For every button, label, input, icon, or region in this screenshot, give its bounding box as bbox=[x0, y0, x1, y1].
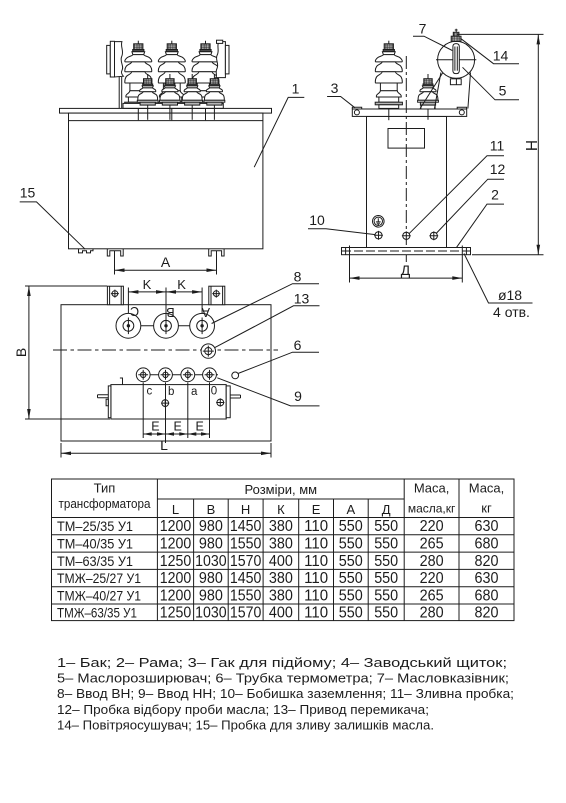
TABLE bbox=[52, 479, 515, 622]
svg-text:К: К bbox=[277, 502, 285, 517]
sampling plug 12 bbox=[429, 231, 438, 240]
LV bushing c top bbox=[136, 368, 150, 382]
lifting bracket right bbox=[209, 286, 225, 305]
TOP VIEW bbox=[13, 268, 320, 457]
svg-text:Маса,: Маса, bbox=[469, 481, 505, 496]
callout labels bbox=[309, 21, 508, 228]
svg-text:15: 15 bbox=[20, 184, 36, 200]
svg-text:5– Маслорозширювач; 6– Труб: 5– Маслорозширювач; 6– Трубка термометра… bbox=[57, 671, 509, 686]
svg-text:1570: 1570 bbox=[230, 605, 262, 622]
svg-text:1030: 1030 bbox=[195, 553, 227, 570]
svg-text:820: 820 bbox=[475, 553, 499, 570]
right terminal plate bbox=[215, 40, 229, 103]
svg-text:1030: 1030 bbox=[195, 605, 227, 622]
SIDE VIEW bbox=[308, 21, 544, 320]
drain plug 15 front bbox=[79, 249, 94, 253]
hole callout o18 bbox=[464, 254, 533, 320]
svg-text:12– Пробка відбору проби масл: 12– Пробка відбору проби масла; 13– Прив… bbox=[57, 702, 429, 717]
svg-text:550: 550 bbox=[374, 587, 398, 604]
svg-text:110: 110 bbox=[304, 553, 328, 570]
LV row line bbox=[136, 374, 218, 376]
svg-text:10: 10 bbox=[309, 212, 325, 228]
svg-text:H: H bbox=[524, 140, 541, 151]
svg-text:550: 550 bbox=[339, 570, 363, 587]
svg-text:680: 680 bbox=[475, 536, 499, 553]
svg-text:Розміри, мм: Розміри, мм bbox=[245, 482, 318, 497]
dimension E E E bbox=[143, 383, 209, 444]
center line horizontal bbox=[53, 349, 278, 351]
svg-text:0: 0 bbox=[211, 386, 217, 398]
svg-text:1250: 1250 bbox=[160, 553, 192, 570]
table row 4 bbox=[57, 570, 499, 587]
svg-text:265: 265 bbox=[420, 536, 444, 553]
left terminal plate bbox=[107, 41, 124, 108]
LV bushing front b3 bbox=[182, 74, 203, 120]
svg-text:110: 110 bbox=[304, 587, 328, 604]
callout 6 leader bbox=[238, 337, 319, 374]
svg-text:550: 550 bbox=[374, 518, 398, 535]
svg-text:380: 380 bbox=[269, 518, 293, 535]
tank 1 side body bbox=[367, 116, 447, 247]
svg-text:K: K bbox=[143, 277, 152, 292]
svg-text:1200: 1200 bbox=[160, 518, 192, 535]
bushing mounting plate bbox=[123, 103, 223, 108]
HV bushing front B1 bbox=[125, 41, 152, 121]
svg-text:масла,кг: масла,кг bbox=[408, 502, 456, 516]
svg-text:В: В bbox=[207, 502, 216, 517]
svg-text:110: 110 bbox=[304, 605, 328, 622]
table grid bbox=[52, 479, 515, 621]
phase labels bbox=[147, 386, 218, 399]
svg-text:E: E bbox=[174, 420, 182, 434]
svg-text:трансформатора: трансформатора bbox=[59, 496, 152, 511]
svg-text:ТМЖ–40/27 У1: ТМЖ–40/27 У1 bbox=[57, 587, 141, 603]
table row 3 bbox=[57, 553, 499, 570]
LV bushing side bbox=[418, 74, 439, 120]
svg-text:ТМ–63/35 У1: ТМ–63/35 У1 bbox=[57, 553, 133, 569]
air dryer 14 bbox=[451, 29, 461, 42]
svg-text:13: 13 bbox=[294, 290, 310, 306]
svg-text:ТМ–40/35 У1: ТМ–40/35 У1 bbox=[57, 536, 133, 552]
svg-text:380: 380 bbox=[269, 587, 293, 604]
callout 8 leader bbox=[212, 268, 319, 323]
nameplate 4 bbox=[388, 129, 425, 149]
svg-text:B: B bbox=[166, 305, 174, 319]
svg-text:110: 110 bbox=[304, 536, 328, 553]
svg-text:6: 6 bbox=[294, 337, 302, 353]
svg-text:980: 980 bbox=[199, 518, 223, 535]
lifting bracket left bbox=[107, 286, 123, 305]
svg-text:11: 11 bbox=[490, 138, 505, 154]
tank 1 front view body bbox=[69, 113, 263, 249]
svg-text:Тип: Тип bbox=[94, 481, 116, 496]
svg-text:E: E bbox=[196, 420, 204, 434]
svg-text:ТМ–25/35 У1: ТМ–25/35 У1 bbox=[57, 518, 133, 534]
dimension D bbox=[350, 246, 463, 283]
callout 11 leader bbox=[409, 156, 504, 234]
svg-text:550: 550 bbox=[339, 536, 363, 553]
FRONT VIEW bbox=[20, 40, 305, 274]
svg-text:550: 550 bbox=[339, 518, 363, 535]
callout 13 leader bbox=[215, 290, 320, 347]
tap changer drive 13 bbox=[201, 344, 215, 358]
base frame 2 bbox=[342, 248, 471, 255]
table row 6 bbox=[57, 605, 499, 622]
svg-text:550: 550 bbox=[339, 605, 363, 622]
svg-text:380: 380 bbox=[269, 570, 293, 587]
callout 10 leader bbox=[308, 229, 375, 235]
svg-text:980: 980 bbox=[199, 536, 223, 553]
table row 2 bbox=[57, 536, 499, 553]
center line vertical bbox=[405, 56, 407, 262]
table header text bbox=[59, 481, 505, 517]
HV bushing C top view bbox=[116, 304, 141, 338]
svg-text:1200: 1200 bbox=[160, 587, 192, 604]
housing plugs bbox=[161, 399, 169, 407]
LV bushing front b2 bbox=[160, 74, 181, 120]
svg-text:280: 280 bbox=[420, 553, 444, 570]
dimension A bbox=[115, 251, 217, 275]
svg-text:L: L bbox=[172, 502, 179, 517]
svg-text:Маса,: Маса, bbox=[414, 481, 450, 496]
callout 2 leader bbox=[457, 204, 505, 247]
svg-text:380: 380 bbox=[269, 536, 293, 553]
svg-text:550: 550 bbox=[339, 587, 363, 604]
svg-text:А: А bbox=[346, 502, 355, 517]
svg-text:400: 400 bbox=[269, 605, 293, 622]
svg-text:980: 980 bbox=[199, 570, 223, 587]
svg-text:630: 630 bbox=[475, 518, 499, 535]
svg-text:Д: Д bbox=[382, 502, 391, 517]
LEGEND bbox=[57, 655, 514, 732]
svg-text:820: 820 bbox=[475, 605, 499, 622]
svg-text:c: c bbox=[147, 386, 153, 398]
tank outline top view bbox=[61, 305, 271, 441]
svg-text:550: 550 bbox=[339, 553, 363, 570]
svg-text:14: 14 bbox=[493, 47, 509, 63]
svg-text:2: 2 bbox=[491, 186, 499, 202]
svg-text:ø18: ø18 bbox=[498, 287, 522, 303]
svg-text:B: B bbox=[13, 348, 29, 357]
svg-text:1– Бак; 2– Рама; 3– Гак д: 1– Бак; 2– Рама; 3– Гак для підйому; 4– … bbox=[57, 655, 507, 670]
svg-text:400: 400 bbox=[269, 553, 293, 570]
HV bushing A top view bbox=[190, 305, 215, 338]
svg-text:кг: кг bbox=[481, 501, 492, 516]
dimension B bbox=[13, 286, 110, 419]
svg-text:9: 9 bbox=[294, 388, 302, 404]
svg-text:550: 550 bbox=[374, 553, 398, 570]
oil level gauge 7 bbox=[453, 44, 459, 74]
HV bushing B top view bbox=[154, 305, 179, 338]
svg-text:280: 280 bbox=[420, 605, 444, 622]
svg-text:Н: Н bbox=[241, 502, 250, 517]
dimension L bbox=[61, 437, 271, 458]
svg-text:220: 220 bbox=[420, 518, 444, 535]
drain plug 11 bbox=[402, 231, 411, 240]
LV bushing 0 top bbox=[203, 368, 217, 382]
table row 1 bbox=[57, 518, 499, 535]
svg-text:1450: 1450 bbox=[230, 570, 262, 587]
svg-text:12: 12 bbox=[490, 161, 506, 177]
svg-text:C: C bbox=[130, 304, 139, 318]
conservator support legs bbox=[435, 73, 471, 109]
HV bushing side bbox=[375, 41, 402, 121]
HV bushings row line bbox=[116, 325, 214, 327]
svg-text:ТМЖ–63/35 У1: ТМЖ–63/35 У1 bbox=[57, 605, 137, 621]
thermometer tube 6 bbox=[232, 372, 239, 379]
foot left bbox=[107, 249, 123, 256]
callout 7 leader bbox=[413, 36, 452, 50]
dimension K K bbox=[128, 277, 202, 320]
svg-text:Д: Д bbox=[401, 262, 411, 278]
svg-text:1450: 1450 bbox=[230, 518, 262, 535]
svg-text:E: E bbox=[151, 420, 159, 434]
lid side with hooks 3 bbox=[352, 107, 466, 116]
svg-text:1200: 1200 bbox=[160, 570, 192, 587]
svg-text:8– Ввод ВН; 9– Ввод НН; 10: 8– Ввод ВН; 9– Ввод НН; 10– Бобишка зазе… bbox=[57, 686, 514, 701]
svg-text:L: L bbox=[160, 437, 168, 453]
svg-text:A: A bbox=[161, 254, 171, 270]
svg-text:265: 265 bbox=[420, 587, 444, 604]
dimension H bbox=[457, 34, 544, 254]
svg-text:ТМЖ–25/27 У1: ТМЖ–25/27 У1 bbox=[57, 570, 141, 586]
callout 3 leader bbox=[327, 97, 355, 108]
svg-text:1550: 1550 bbox=[230, 587, 262, 604]
svg-text:980: 980 bbox=[199, 587, 223, 604]
tank 1 front view lid bbox=[60, 108, 272, 113]
LV bushing b top bbox=[159, 368, 173, 382]
svg-text:8: 8 bbox=[294, 268, 302, 284]
svg-text:14– Повітряосушувач; 15– Пр: 14– Повітряосушувач; 15– Пробка для злив… bbox=[57, 717, 434, 732]
svg-text:1: 1 bbox=[292, 81, 300, 97]
callout 5 leader bbox=[463, 67, 520, 100]
svg-text:1200: 1200 bbox=[160, 536, 192, 553]
conservator strut bbox=[420, 73, 443, 109]
svg-text:b: b bbox=[168, 386, 174, 398]
LV bushing front b4 bbox=[204, 74, 225, 120]
callout 14 leader bbox=[461, 38, 520, 63]
callout 12 leader bbox=[436, 179, 504, 233]
LV bushing a top bbox=[181, 368, 195, 382]
svg-text:1550: 1550 bbox=[230, 536, 262, 553]
svg-text:1570: 1570 bbox=[230, 553, 262, 570]
svg-text:Е: Е bbox=[312, 502, 321, 517]
callout 1 leader bbox=[254, 81, 304, 168]
svg-text:K: K bbox=[177, 277, 186, 292]
callout 15 leader bbox=[20, 184, 85, 249]
svg-text:110: 110 bbox=[304, 518, 328, 535]
conservator drain box bbox=[450, 79, 461, 85]
foot right bbox=[209, 249, 224, 256]
svg-text:110: 110 bbox=[304, 570, 328, 587]
svg-text:680: 680 bbox=[475, 587, 499, 604]
oil conservator 5 bbox=[438, 41, 475, 78]
svg-text:220: 220 bbox=[420, 570, 444, 587]
table row 5 bbox=[57, 587, 499, 604]
svg-text:4 отв.: 4 отв. bbox=[493, 304, 530, 320]
callout 9 leader bbox=[217, 378, 319, 406]
svg-text:550: 550 bbox=[374, 605, 398, 622]
LV bushing front b1 bbox=[137, 74, 158, 120]
LV terminal housing bbox=[98, 378, 241, 419]
svg-text:630: 630 bbox=[475, 570, 499, 587]
svg-text:5: 5 bbox=[499, 82, 507, 98]
plug below boss bbox=[374, 231, 383, 240]
HV bushing front B2 bbox=[158, 41, 185, 121]
svg-text:550: 550 bbox=[374, 570, 398, 587]
svg-text:7: 7 bbox=[419, 21, 427, 37]
grounding boss 10 bbox=[373, 216, 385, 228]
svg-text:1250: 1250 bbox=[160, 605, 192, 622]
svg-text:a: a bbox=[191, 386, 198, 398]
HV bushing front B3 bbox=[192, 41, 219, 121]
svg-text:550: 550 bbox=[374, 536, 398, 553]
svg-text:3: 3 bbox=[331, 80, 339, 96]
